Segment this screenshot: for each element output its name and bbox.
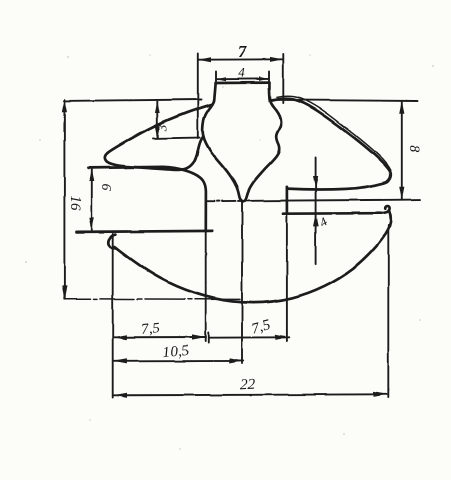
dimension 16: bottom dash-dot reference line: [64, 298, 240, 301]
dimension 4 (top): right arrow: [259, 77, 269, 81]
dimension 16: bottom arrow: [62, 286, 67, 299]
dimension 6: dimension line: [91, 169, 93, 230]
profile: stem top edge: [216, 81, 270, 84]
dimension 16: top reference line: [64, 100, 202, 101]
dimension 10,5: dimension line: [113, 360, 243, 362]
dimension 3: top arrow: [155, 101, 160, 113]
svg-text:4: 4: [238, 65, 245, 80]
dimension 7,5 left: right arrow: [192, 334, 206, 339]
dimension 4 (top): right extension: [268, 72, 270, 84]
dimension 7: right extension line: [282, 54, 284, 103]
profile: bottom lip big arc: [114, 211, 390, 302]
svg-text:22: 22: [240, 377, 256, 394]
profile: right wing top edge doubled stroke: [277, 96, 391, 170]
dimension 4 (right slot): upper arrow pointing down: [313, 176, 318, 189]
dimension 4 (top): left extension: [215, 72, 217, 84]
dimension 22: left arrow: [113, 393, 127, 398]
profile: left wing tip and underside: [105, 136, 204, 170]
dimension 8: dimension line: [401, 101, 403, 199]
svg-text:6: 6: [99, 184, 114, 191]
svg-text:7,5: 7,5: [140, 320, 161, 338]
dimension 6: top arrow: [89, 169, 94, 181]
profile: right wing tip: [383, 171, 391, 183]
dimension 22: right arrow: [374, 392, 388, 397]
dimension 7,5 right: right arrow: [275, 335, 289, 340]
profile: left block bottom edge: [76, 231, 213, 232]
dimension 4 (right slot): dimension line: [315, 157, 317, 264]
dimension 16: top arrow: [62, 99, 67, 112]
dimension 7: left arrow: [198, 57, 211, 62]
profile: left block top edge and rounded right corner, right edge: [89, 167, 206, 232]
extension line: slot left end continued (x=286.9): [286, 214, 288, 342]
extension line: profile centerline (x=242): [241, 202, 243, 364]
profile: stem body (left side, lower tip, right side): [203, 83, 282, 202]
dimension 3: dimension line: [156, 102, 158, 138]
dimension 7: right arrow: [270, 57, 283, 62]
dimension 10,5: left arrow: [113, 359, 127, 364]
dimension 10,5: right arrow: [229, 358, 243, 363]
dimension 4 (top): left arrow: [216, 77, 226, 81]
dimension 7,5 left: left arrow: [113, 335, 127, 340]
dimension 8: top arrow: [399, 101, 404, 114]
paper speckles: [25, 54, 434, 450]
dimension 16: dimension line: [63, 100, 65, 299]
dimension 4 (top): dimension line: [216, 78, 269, 80]
extension line: profile right edge (x=388.3): [387, 225, 389, 398]
profile: right slot closed left end: [286, 187, 289, 214]
profile: right wing top edge: [272, 99, 390, 172]
dimension 7: dimension line: [198, 58, 283, 60]
dimension 4 (right slot): lower arrow pointing up: [313, 214, 318, 227]
dimension 8: top reference line: [270, 100, 418, 101]
dimension 8: bottom arrow: [399, 186, 404, 199]
profile: right slot bottom edge with right corner curl: [283, 206, 390, 214]
svg-text:10,5: 10,5: [162, 343, 190, 361]
svg-text:3: 3: [155, 124, 170, 132]
svg-text:16: 16: [67, 196, 83, 212]
dimension 7: left extension line: [197, 54, 199, 139]
dimension 7,5 right: dimension line with left tick: [209, 333, 289, 343]
svg-text:8: 8: [406, 145, 422, 153]
extension line: block right edge continued (x=205.7): [205, 232, 207, 342]
reference line: long thin line through stem tip (y=200): [207, 200, 421, 202]
dimension 6: bottom arrow: [89, 218, 94, 230]
profile: bottom lip left tip hook: [108, 235, 115, 249]
extension line: bottom lip left tip (x=112.7): [112, 234, 114, 398]
dimension 22: dimension line: [113, 394, 388, 395]
profile: right slot top edge / right wing underside: [287, 183, 382, 189]
dimension 3: bottom arrow: [155, 127, 160, 139]
dimension 3: bottom reference line: [153, 137, 200, 140]
profile: left wing top edge: [108, 104, 212, 152]
dimension 7,5 left: dimension line: [113, 336, 206, 338]
